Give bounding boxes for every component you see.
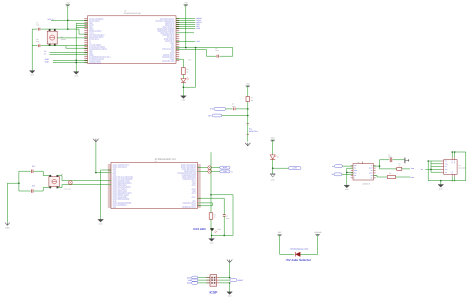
svg-text:+5V Auto Selector: +5V Auto Selector (285, 258, 311, 262)
svg-text:OUT2: OUT2 (369, 173, 373, 175)
svg-text:GND: GND (5, 226, 10, 229)
svg-text:LM358IDR: LM358IDR (362, 183, 371, 186)
svg-text:ATMEGA328P-AU: ATMEGA328P-AU (155, 158, 176, 161)
svg-text:RESET-EN: RESET-EN (249, 130, 258, 133)
svg-text:XT2: XT2 (32, 165, 35, 168)
svg-text:GND: GND (271, 179, 276, 182)
svg-text:VIN: VIN (445, 172, 447, 174)
svg-text:MOSI: MOSI (187, 282, 192, 285)
svg-text:Schottky Bypass Diode: Schottky Bypass Diode (290, 248, 308, 251)
svg-text:IN2+: IN2+ (354, 173, 357, 175)
svg-text:U1: U1 (155, 160, 157, 163)
svg-text:GND: GND (354, 170, 357, 172)
svg-text:U3: U3 (124, 10, 126, 13)
svg-text:GND: GND (45, 60, 50, 63)
svg-text:U2: U2 (357, 161, 359, 164)
svg-text:NC: NC (371, 177, 373, 179)
svg-text:OUT1: OUT1 (369, 168, 373, 170)
svg-text:OUT: OUT (454, 160, 456, 163)
svg-text:ADJ: ADJ (445, 169, 448, 171)
svg-text:ATMEGA16U2-MU: ATMEGA16U2-MU (124, 12, 141, 15)
svg-text:RESET: RESET (238, 279, 244, 282)
svg-text:XT1: XT1 (32, 185, 35, 188)
svg-text:D13 LED: D13 LED (193, 227, 206, 231)
svg-text:SD: SD (371, 175, 373, 177)
svg-text:EN: EN (445, 166, 447, 168)
svg-text:VIN: VIN (445, 161, 447, 163)
svg-text:IN1+: IN1+ (354, 165, 357, 167)
svg-text:CSTCE16M: CSTCE16M (64, 189, 72, 191)
svg-text:ICSP: ICSP (209, 291, 218, 295)
svg-text:SJ1: SJ1 (249, 127, 252, 130)
svg-text:TAB: TAB (452, 171, 454, 174)
svg-text:OUT: OUT (452, 160, 454, 163)
svg-text:+5V/USB: +5V/USB (314, 231, 322, 234)
svg-text:Vin: Vin (421, 168, 423, 171)
svg-text:NC: NC (371, 170, 373, 172)
svg-text:GND: GND (445, 163, 448, 165)
svg-text:V+: V+ (371, 165, 373, 167)
